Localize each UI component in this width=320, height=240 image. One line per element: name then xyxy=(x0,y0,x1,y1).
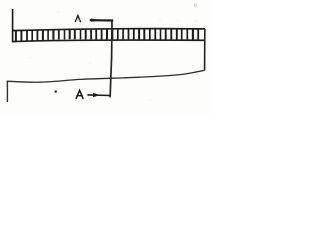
section marker bottom arrowhead xyxy=(93,93,100,98)
beam top edge xyxy=(12,29,205,31)
bottom outline: left vertical xyxy=(6,81,8,102)
speck dot xyxy=(55,90,57,92)
section marker bottom corner tail xyxy=(109,95,111,97)
faint scan mark top right xyxy=(194,3,196,7)
label A (top) xyxy=(75,16,80,22)
section marker top horizontal xyxy=(90,19,114,21)
beam right edge / right drop line xyxy=(204,29,206,70)
label A (bottom) xyxy=(76,90,83,98)
section marker top arrowhead xyxy=(91,19,99,22)
section marker bottom horizontal xyxy=(87,94,110,97)
beam left edge xyxy=(12,9,14,42)
faint scan specks xyxy=(30,12,197,101)
bottom outline: slanted long line xyxy=(7,70,205,82)
beam hatch ticks xyxy=(16,29,198,41)
beam bottom edge xyxy=(12,40,205,42)
section line A-A vertical xyxy=(110,20,112,96)
